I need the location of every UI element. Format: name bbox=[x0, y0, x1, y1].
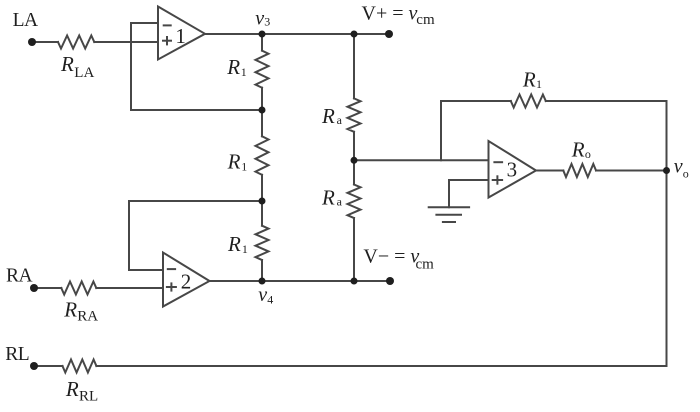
svg-text:R: R bbox=[227, 150, 241, 174]
svg-text:RA: RA bbox=[6, 265, 33, 286]
svg-text:1: 1 bbox=[241, 65, 247, 79]
svg-text:v: v bbox=[258, 284, 267, 306]
svg-text:v: v bbox=[674, 156, 683, 178]
svg-text:4: 4 bbox=[267, 293, 273, 307]
svg-text:R: R bbox=[227, 232, 241, 256]
svg-text:R: R bbox=[321, 186, 335, 210]
svg-text:LA: LA bbox=[13, 10, 38, 31]
svg-text:R: R bbox=[321, 104, 335, 128]
svg-text:RA: RA bbox=[77, 308, 98, 324]
svg-text:R: R bbox=[60, 52, 74, 76]
svg-text:R: R bbox=[522, 68, 536, 92]
svg-text:1: 1 bbox=[536, 77, 542, 91]
svg-text:o: o bbox=[683, 167, 689, 181]
svg-text:V− = v: V− = v bbox=[363, 246, 419, 268]
svg-text:a: a bbox=[337, 113, 343, 127]
svg-text:3: 3 bbox=[264, 15, 270, 29]
svg-text:o: o bbox=[585, 147, 591, 161]
svg-text:R: R bbox=[571, 138, 585, 162]
svg-text:cm: cm bbox=[416, 12, 435, 28]
svg-text:v: v bbox=[255, 7, 264, 29]
svg-text:1: 1 bbox=[241, 159, 247, 173]
svg-text:RL: RL bbox=[5, 344, 29, 365]
svg-text:a: a bbox=[337, 195, 343, 209]
svg-text:R: R bbox=[65, 377, 79, 401]
svg-text:2: 2 bbox=[181, 270, 192, 294]
svg-text:cm: cm bbox=[416, 257, 435, 273]
svg-text:LA: LA bbox=[74, 65, 94, 81]
svg-text:3: 3 bbox=[507, 158, 517, 182]
svg-text:RL: RL bbox=[79, 389, 98, 405]
svg-text:R: R bbox=[226, 55, 240, 79]
svg-text:R: R bbox=[63, 298, 77, 322]
svg-text:V+ = v: V+ = v bbox=[362, 3, 418, 25]
svg-text:1: 1 bbox=[175, 24, 186, 48]
svg-text:1: 1 bbox=[242, 242, 248, 256]
